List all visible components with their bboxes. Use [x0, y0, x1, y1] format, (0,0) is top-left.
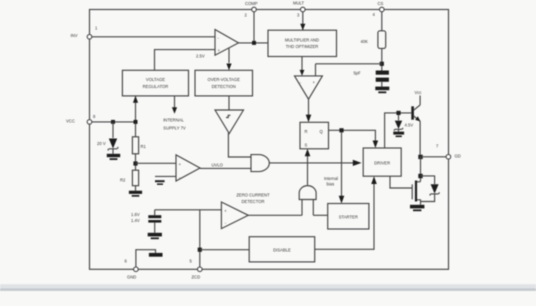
svg-text:1: 1 [95, 26, 98, 31]
block disable [249, 237, 315, 262]
svg-text:ZERO CURRENT: ZERO CURRENT [236, 193, 270, 198]
zener diode DZ1 20V on VCC rail [92, 121, 136, 123]
node drain/zener junction [418, 174, 422, 178]
svg-text:-: - [225, 221, 227, 226]
ground MOSFET source [410, 205, 424, 209]
svg-text:1.4V: 1.4V [131, 218, 140, 223]
wire 2.5V ref from voltage regulator to E/A non-inverting input [155, 50, 216, 71]
svg-text:1.6V: 1.6V [131, 212, 140, 217]
wire CS node to PWM comparator input [316, 63, 382, 65]
IC boundary box [90, 10, 449, 270]
wire UVLO output [200, 167, 251, 169]
svg-text:MULTIPLIER AND: MULTIPLIER AND [285, 38, 319, 43]
buffer hysteresis triangle below OVP [228, 96, 230, 110]
svg-text:-: - [300, 80, 302, 85]
svg-text:Vcc: Vcc [415, 90, 422, 95]
svg-text:REGULATOR: REGULATOR [143, 84, 169, 89]
svg-text:GD: GD [455, 154, 461, 159]
wire base drive from driver top [385, 113, 412, 148]
wire PWM comparator output to R input of flip-flop [308, 99, 310, 115]
node Q output junction [339, 128, 343, 132]
ground internal ground bar [149, 253, 163, 257]
svg-text:Q: Q [320, 129, 324, 134]
op-amp UVLO comparator [176, 155, 200, 181]
wire AND output to driver with arrowhead [269, 162, 354, 164]
svg-text:DETECTOR: DETECTOR [242, 199, 265, 204]
wire GND pin to internal ground [136, 250, 156, 267]
wire internal supply output arrow [174, 96, 176, 109]
pin GD (7) right [446, 155, 451, 160]
svg-text:ZCD: ZCD [192, 275, 201, 280]
capacitor C1 5pF to ground [376, 71, 389, 75]
flip-flop R/S latch [300, 122, 329, 149]
svg-text:-: - [179, 175, 181, 180]
wire Q output to driver [329, 130, 376, 142]
svg-text:20 V: 20 V [97, 141, 106, 146]
svg-text:OVER-VOLTAGE: OVER-VOLTAGE [207, 77, 240, 82]
svg-text:INTERNAL: INTERNAL [163, 118, 184, 123]
gray page rule band at bottom of page [0, 284, 536, 291]
wire Q output down to starter with arrowhead [341, 132, 343, 197]
node base clamp junction [396, 111, 400, 115]
wire starter output to OR gate [313, 214, 327, 216]
svg-text:DISABLE: DISABLE [273, 248, 291, 253]
block over-voltage detection [195, 70, 253, 96]
pin ZCD (5) bottom [198, 267, 203, 272]
wire ZCD input line [155, 209, 222, 211]
svg-text:INV: INV [71, 33, 78, 38]
wire GD output line to pin [421, 156, 447, 158]
wire INV pin to E/A inverting input [92, 36, 215, 38]
svg-text:R2: R2 [120, 178, 126, 183]
ground below R2 [129, 191, 142, 194]
svg-text:-: - [218, 36, 220, 41]
node divider tap [135, 154, 137, 170]
ground below DZ2 [393, 132, 404, 135]
svg-text:COMP: COMP [245, 1, 258, 6]
block starter [328, 204, 369, 230]
wire multiplier output into PWM comparator [301, 57, 303, 71]
wire gate drive from driver bottom [390, 176, 412, 188]
node CS filter junction [380, 62, 384, 66]
svg-text:UVLO: UVLO [212, 163, 224, 168]
wire E/A output [239, 42, 269, 44]
node ZCD/disable junction [198, 248, 202, 252]
pin COMP (2) top [252, 7, 257, 12]
svg-text:STARTER: STARTER [339, 215, 358, 220]
wire OVP chain down to AND gate input [228, 134, 251, 158]
svg-text:DRIVER: DRIVER [374, 161, 390, 166]
op-amp PWM comparator (down pointing) [295, 76, 323, 99]
svg-text:S: S [305, 143, 308, 148]
block voltage regulator [122, 70, 188, 96]
op-amp E/A error amplifier [215, 30, 239, 56]
pin CS (4) top [380, 7, 385, 12]
wire ZCD pin riser [199, 210, 201, 267]
block driver [363, 148, 401, 176]
ground below DZ1 [107, 154, 120, 157]
svg-text:CS: CS [378, 1, 384, 6]
resistor R2 of UVLO divider [132, 170, 138, 186]
resistor R3 40K on CS pin [381, 12, 383, 31]
wire divider tap to UVLO input [136, 162, 177, 164]
svg-text:VOLTAGE: VOLTAGE [146, 77, 165, 82]
wire E/A output tap into OVP detection [228, 48, 230, 63]
OR gate (up pointing) combining starter and ZCD [299, 186, 316, 200]
wire disable output up into driver bottom [315, 183, 374, 249]
node gate-drive output junction [418, 155, 422, 159]
wire COMP pin drop [253, 12, 255, 43]
resistor R1 of UVLO divider [135, 124, 137, 137]
block multiplier and THD optimizer [268, 30, 337, 56]
svg-text:+: + [179, 162, 182, 167]
svg-text:7: 7 [436, 144, 439, 149]
wire MULT pin into multiplier top [302, 12, 304, 30]
svg-text:4: 4 [373, 12, 376, 17]
svg-text:3: 3 [297, 13, 300, 18]
zener diode DZ3 output clamp [421, 176, 435, 184]
svg-text:VCC: VCC [66, 119, 75, 124]
AND gate U-logic driving driver [251, 155, 269, 172]
pin GND (6) bottom [134, 267, 139, 272]
wire VCC feed up into regulator bottom [135, 97, 137, 122]
svg-text:40K: 40K [361, 39, 369, 44]
svg-text:5pF: 5pF [354, 71, 362, 76]
svg-text:6: 6 [125, 259, 128, 264]
wire output node down to MOSFET drain [420, 157, 422, 182]
svg-text:+: + [224, 209, 227, 214]
wire gate input legs [301, 200, 303, 216]
pin MULT (3) top [301, 7, 306, 12]
svg-text:R: R [305, 129, 308, 134]
svg-text:8: 8 [93, 114, 96, 119]
svg-text:Internal: Internal [324, 176, 338, 181]
svg-text:2.5V: 2.5V [196, 54, 205, 59]
svg-text:MULT: MULT [293, 1, 305, 6]
svg-text:4.5V: 4.5V [405, 123, 414, 128]
svg-text:5: 5 [190, 259, 193, 264]
reference stub into UVLO inverting input [155, 175, 176, 177]
wire ZCD junction to disable input [200, 249, 249, 251]
zener diode DZ2 base clamp [398, 115, 400, 120]
node COMP junction [252, 41, 256, 45]
wire ZCD comparator output to OR gate [248, 214, 302, 216]
svg-text:THD OPTIMIZER: THD OPTIMIZER [286, 44, 319, 49]
svg-text:R1: R1 [141, 144, 147, 149]
svg-text:2: 2 [245, 13, 248, 18]
svg-text:SUPPLY 7V: SUPPLY 7V [163, 126, 186, 131]
svg-text:+: + [313, 80, 316, 85]
pin INV (1) left [87, 35, 92, 40]
svg-text:bias: bias [327, 181, 335, 186]
pin VCC (8) left [87, 120, 92, 125]
wire S input from gate with up arrowhead [307, 152, 309, 185]
transistor M1 NMOS pull-down [415, 181, 417, 202]
capacitor C2 on ZCD input with thresholds [154, 210, 156, 215]
svg-text:DETECTION: DETECTION [212, 84, 236, 89]
svg-text:GND: GND [127, 275, 136, 280]
op-amp zero current detector [221, 202, 248, 229]
